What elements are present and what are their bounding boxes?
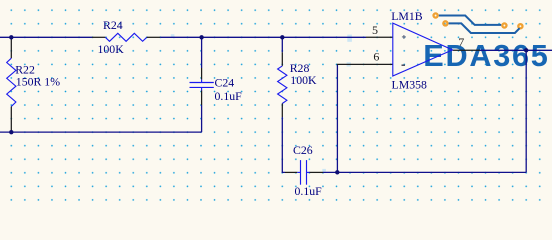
svg-text:C26: C26 xyxy=(293,143,313,157)
junction node: R28 top xyxy=(280,35,284,39)
capacitor C24 top pin xyxy=(201,68,203,79)
junction node: C24 top xyxy=(199,35,203,39)
wire: C24 bottom riser xyxy=(201,105,203,132)
resistor R24 right pin xyxy=(147,36,160,38)
svg-text:LM1B: LM1B xyxy=(391,9,423,23)
EDA365 logo icon: trace B xyxy=(449,23,520,33)
resistor R28 top pin wire xyxy=(281,37,283,52)
EDA365 logo icon: pad ring 2 xyxy=(443,21,447,25)
op-amp U1 pin 5 stub xyxy=(366,36,393,38)
op-amp U1 pin 7 output stub xyxy=(453,49,481,51)
capacitor C24 bottom pin xyxy=(201,91,203,106)
op-amp U1 pin 6 stub xyxy=(337,63,393,65)
wire: inverting input riser xyxy=(336,64,338,172)
wire: feedback right riser xyxy=(525,50,527,172)
svg-text:0.1uF: 0.1uF xyxy=(295,184,323,198)
EDA365 logo icon: pad ring 3 xyxy=(502,23,506,27)
svg-text:R24: R24 xyxy=(103,18,123,32)
op-amp U1 triangle xyxy=(393,23,453,76)
faint grid artifact on top rail A xyxy=(171,34,175,37)
faint grid artifact on top rail B xyxy=(347,35,352,42)
op-amp U1 minus mark xyxy=(402,64,406,66)
junction node: output tap xyxy=(524,48,528,52)
faint grid artifact on feedback wire xyxy=(322,169,326,172)
capacitor C26 plates xyxy=(297,160,309,185)
wire: top rail xyxy=(0,36,92,38)
wire: bottom left rail xyxy=(0,131,202,133)
wire: top rail middle xyxy=(160,36,366,38)
capacitor C26 left pin xyxy=(285,171,297,173)
wire: output to right edge xyxy=(480,49,552,51)
op-amp U1 plus mark xyxy=(402,35,406,39)
svg-text:150R 1%: 150R 1% xyxy=(16,74,60,88)
junction node: R22 top xyxy=(9,35,13,39)
junction node: feedback tap xyxy=(335,170,339,174)
wire: R28 to C26 xyxy=(282,117,285,172)
resistor R28 bottom pin xyxy=(281,104,283,118)
EDA365 logo icon: pad ring 1 xyxy=(434,13,438,17)
svg-text:0.1uF: 0.1uF xyxy=(215,89,243,103)
capacitor C26 right pin xyxy=(310,171,324,173)
svg-text:C24: C24 xyxy=(215,76,235,90)
svg-text:100K: 100K xyxy=(98,42,125,56)
EDA365 logo icon: trace A xyxy=(439,16,501,25)
resistor R22 top pin xyxy=(10,37,12,58)
resistor R28 zigzag xyxy=(278,66,287,104)
resistor R28 top pin xyxy=(281,52,283,66)
capacitor C24 plates xyxy=(190,79,214,90)
svg-text:5: 5 xyxy=(372,23,378,37)
resistor R22 zigzag xyxy=(7,58,16,106)
EDA365 logo icon: pad ring 4 xyxy=(518,24,522,28)
wire: feedback bottom rail xyxy=(323,171,526,173)
resistor R24 left pin xyxy=(92,36,105,38)
resistor R24 zigzag xyxy=(105,33,146,41)
svg-text:100K: 100K xyxy=(290,73,317,87)
svg-text:LM358: LM358 xyxy=(392,77,427,91)
svg-text:EDA365: EDA365 xyxy=(423,38,549,73)
junction node: R22 bottom xyxy=(9,130,13,134)
faint grid artifact on pin 6 wire xyxy=(347,62,351,66)
svg-text:6: 6 xyxy=(373,50,379,64)
resistor R22 bottom pin xyxy=(10,107,12,133)
wire: C24 top riser xyxy=(201,37,203,68)
